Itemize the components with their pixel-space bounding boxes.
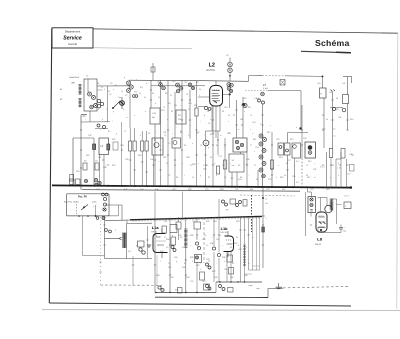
bottom circles x220	[219, 285, 222, 288]
vert x197	[196, 217, 198, 222]
svg-text:o: o	[160, 145, 161, 147]
svg-text:C60: C60	[174, 257, 177, 259]
cap above L1a right	[162, 226, 167, 233]
svg-text:q: q	[172, 235, 173, 237]
trimmer CV2	[92, 96, 96, 100]
page top rule	[52, 28, 398, 33]
svg-text:C11: C11	[172, 81, 175, 83]
svg-text:k: k	[102, 119, 103, 121]
svg-text:L2: L2	[209, 62, 215, 68]
circle below switch	[102, 217, 105, 220]
svg-text:C1: C1	[254, 165, 256, 167]
svg-text:b: b	[155, 103, 156, 105]
svg-text:Géné/Pick: Géné/Pick	[69, 77, 80, 79]
svg-text:Tous Pos. Radio: Tous Pos. Radio	[64, 201, 80, 203]
wire switch right	[105, 204, 122, 206]
tube L2 right lead	[223, 94, 230, 96]
box x196 top	[194, 222, 201, 229]
svg-text:H: H	[205, 141, 207, 145]
svg-text:n: n	[330, 177, 331, 179]
pickup circles	[139, 248, 142, 251]
vert x230	[229, 58, 231, 63]
box x235 inner	[235, 140, 238, 143]
volume pot	[195, 255, 202, 263]
mixer circle dark	[120, 101, 125, 106]
svg-text:C12: C12	[184, 82, 187, 84]
vert x263 lower	[262, 188, 264, 269]
svg-text:R26: R26	[138, 155, 141, 157]
svg-text:h: h	[192, 261, 193, 263]
svg-text:R8: R8	[212, 133, 214, 135]
svg-text:Service: Service	[63, 36, 82, 42]
wire below switch	[67, 215, 119, 217]
eye circle	[325, 205, 332, 212]
IF coil dark	[122, 232, 126, 234]
svg-text:2: 2	[199, 95, 200, 97]
svg-text:h: h	[216, 175, 217, 177]
vert x205	[205, 131, 207, 140]
svg-text:C73: C73	[310, 189, 313, 191]
svg-text:C39: C39	[125, 159, 128, 161]
box IF1	[152, 138, 163, 155]
bus junction dots	[69, 185, 71, 187]
vert x352 short	[350, 165, 355, 172]
svg-text:C2: C2	[110, 83, 112, 85]
svg-text:10n: 10n	[265, 203, 268, 205]
IF2 coil	[184, 228, 187, 230]
svg-text:0,1μF: 0,1μF	[263, 88, 269, 90]
wire y106 left of tube	[198, 106, 206, 108]
vert x157 low faint	[156, 255, 158, 285]
svg-text:R31: R31	[180, 219, 183, 221]
bottom box x230	[228, 288, 234, 293]
svg-text:h: h	[123, 109, 124, 111]
trimmer x245	[243, 103, 247, 107]
svg-text:C5: C5	[224, 177, 226, 179]
svg-text:R16: R16	[280, 177, 283, 179]
svg-text:C58: C58	[238, 249, 241, 251]
svg-text:C5: C5	[168, 143, 170, 145]
vert x121 dashed	[121, 122, 123, 186]
trimmer row mid1	[159, 83, 163, 87]
tick symbol x278	[278, 283, 280, 288]
svg-text:25μ: 25μ	[343, 231, 346, 233]
vert x219 gap	[218, 199, 220, 217]
svg-text:R46: R46	[244, 275, 247, 277]
svg-text:R0: R0	[180, 237, 182, 239]
wire y81 right segment	[203, 80, 249, 83]
circles x197	[195, 242, 198, 245]
res on box A	[93, 144, 96, 150]
eye wire top	[318, 197, 328, 199]
svg-text:R5: R5	[108, 131, 110, 133]
svg-text:R4: R4	[286, 163, 288, 165]
vert x155 down	[154, 124, 156, 186]
svg-text:R48: R48	[155, 189, 158, 191]
svg-text:C9: C9	[190, 165, 192, 167]
bus second line	[82, 190, 300, 192]
svg-text:a: a	[113, 89, 114, 91]
wire y282	[216, 281, 262, 283]
nested box ends	[249, 269, 260, 271]
vert x153 top stub	[152, 63, 154, 80]
svg-text:R35: R35	[190, 235, 193, 237]
svg-text:s: s	[190, 125, 191, 127]
trimmers on y76	[322, 76, 324, 78]
small box right of L3	[113, 142, 118, 150]
svg-text:R2: R2	[206, 165, 208, 167]
svg-text:C3: C3	[168, 175, 170, 177]
cap C3	[70, 175, 74, 182]
svg-text:C54: C54	[213, 221, 216, 223]
svg-text:1M: 1M	[240, 119, 243, 121]
bundle bottom hooks	[249, 285, 253, 287]
vert x332	[332, 91, 334, 149]
svg-text:R25: R25	[112, 165, 115, 167]
resistor pair c	[141, 141, 144, 151]
svg-text:Schéma: Schéma	[315, 38, 350, 48]
svg-text:R1: R1	[115, 85, 117, 87]
box M	[308, 197, 316, 213]
svg-text:R5: R5	[330, 165, 332, 167]
wire x142 down	[141, 151, 143, 186]
cap pair C15	[132, 95, 135, 98]
vert x153 to bus	[153, 155, 155, 186]
vert x182	[181, 80, 183, 186]
wire y90 right corner	[268, 89, 301, 91]
line under header	[93, 48, 192, 49]
svg-text:C7: C7	[163, 107, 165, 109]
svg-text:6,8: 6,8	[140, 87, 143, 89]
svg-text:e: e	[98, 109, 99, 111]
svg-text:a: a	[198, 247, 199, 249]
svg-text:C25: C25	[276, 139, 279, 141]
svg-text:x: x	[296, 127, 297, 129]
vert x242	[242, 97, 244, 138]
svg-text:e: e	[244, 111, 245, 113]
svg-text:C27: C27	[287, 160, 290, 162]
svg-text:C9: C9	[250, 115, 252, 117]
svg-text:d: d	[146, 83, 147, 85]
tube L1b leads	[226, 252, 228, 282]
vert x240 mid	[240, 152, 242, 154]
trimmer pair x177	[176, 83, 180, 87]
svg-text:C6: C6	[200, 145, 202, 147]
tube L2 inner box	[212, 89, 220, 91]
svg-text:C32: C32	[88, 135, 91, 137]
svg-text:R3: R3	[171, 111, 173, 113]
svg-text:R50: R50	[220, 189, 223, 191]
svg-text:R47: R47	[124, 189, 127, 191]
svg-text:R2: R2	[182, 247, 184, 249]
svg-text:C28: C28	[270, 169, 273, 171]
svg-text:A1: A1	[60, 88, 62, 91]
svg-text:R53: R53	[326, 189, 329, 191]
svg-text:R43: R43	[156, 275, 159, 277]
svg-text:47k: 47k	[174, 105, 177, 107]
vert x204	[203, 217, 205, 263]
svg-text:C 1k: C 1k	[337, 168, 341, 170]
switch vert x95	[95, 205, 97, 216]
wire y282 dots	[219, 281, 220, 282]
vert x168 to bus	[167, 115, 169, 186]
x263 marks	[262, 197, 264, 199]
vert x340	[335, 159, 337, 188]
svg-text:a: a	[278, 165, 279, 167]
svg-text:C21: C21	[163, 132, 166, 134]
switch contacts column	[102, 193, 105, 196]
bus end dot	[350, 186, 353, 189]
svg-text:C2: C2	[306, 165, 308, 167]
svg-text:220 V: 220 V	[344, 196, 350, 198]
svg-text:C36: C36	[120, 145, 123, 147]
box C33	[150, 108, 160, 124]
eye coil	[330, 198, 334, 200]
wire y122 left	[81, 121, 110, 123]
cap x179 bottom	[178, 288, 183, 294]
box A right edge	[93, 138, 95, 185]
vert x182 gap	[182, 192, 184, 218]
wire x130 mid down	[129, 151, 131, 186]
tube L1a	[153, 234, 168, 253]
vert x178	[178, 217, 180, 222]
svg-text:R6: R6	[248, 107, 250, 109]
cable bundle verticals	[240, 217, 242, 282]
wire top feed y80	[129, 79, 203, 82]
svg-text:C63: C63	[224, 269, 227, 271]
vert x107 gang	[107, 86, 109, 122]
svg-text:R23: R23	[86, 155, 89, 157]
svg-text:a: a	[165, 87, 166, 89]
box L3	[99, 138, 109, 155]
svg-text:b: b	[124, 77, 125, 79]
vert x82 below switch	[82, 216, 84, 256]
svg-text:e: e	[160, 177, 161, 179]
svg-text:C0: C0	[222, 165, 224, 167]
svg-text:5k: 5k	[170, 95, 172, 97]
wire coil to grid	[89, 111, 91, 122]
small caps y150 right	[329, 149, 333, 158]
svg-text:R12: R12	[267, 132, 270, 134]
svg-text:C61: C61	[168, 267, 171, 269]
svg-text:u: u	[220, 235, 221, 237]
vert x147	[147, 226, 149, 259]
svg-text:50: 50	[144, 97, 146, 99]
box right eye	[344, 202, 351, 209]
svg-text:C68: C68	[140, 189, 143, 191]
osc trimmer cluster x238	[227, 83, 231, 87]
switch bottom dots	[78, 215, 80, 217]
trimmer pair x190	[188, 83, 192, 87]
vert x218	[217, 131, 219, 155]
svg-text:u: u	[182, 163, 183, 165]
svg-text:C30: C30	[292, 176, 295, 178]
vert x347	[347, 77, 349, 95]
svg-text:R5: R5	[232, 263, 234, 265]
svg-text:R3: R3	[238, 165, 240, 167]
svg-text:C31: C31	[313, 169, 316, 171]
svg-text:C48: C48	[186, 157, 189, 159]
svg-text:R40: R40	[160, 251, 163, 253]
eye bottom wires	[310, 213, 312, 217]
svg-text:g: g	[113, 111, 114, 113]
svg-text:R41: R41	[182, 267, 185, 269]
svg-text:C41: C41	[338, 117, 341, 119]
svg-text:L8: L8	[317, 236, 322, 241]
dashed chassis left	[101, 284, 163, 286]
svg-text:R1: R1	[236, 237, 238, 239]
svg-text:C7: C7	[164, 237, 166, 239]
vert x175 to bus	[174, 148, 176, 186]
page left border	[49, 28, 52, 303]
cav parts	[261, 92, 265, 96]
cable hatch	[243, 244, 246, 246]
tube L1b	[224, 236, 234, 252]
trimmer CV1	[88, 92, 92, 96]
vert x160 to bus	[160, 138, 162, 186]
circles y126	[97, 124, 100, 127]
circles x160 bottom	[158, 286, 161, 289]
vert x294 low	[294, 158, 296, 187]
box M circles	[310, 198, 313, 201]
svg-text:Département: Département	[65, 30, 81, 34]
svg-text:1k: 1k	[326, 119, 328, 121]
vert x213	[212, 106, 214, 187]
svg-text:R2: R2	[152, 93, 154, 95]
circle H	[203, 140, 209, 146]
ground ticks below coil	[81, 114, 87, 116]
vert x155 gap	[154, 192, 156, 218]
box x235	[233, 138, 247, 152]
svg-text:C71: C71	[235, 189, 238, 191]
svg-text:R0: R0	[216, 145, 218, 147]
box x229 lower	[229, 154, 244, 172]
circles x173	[171, 246, 174, 249]
svg-text:R22: R22	[112, 139, 115, 141]
svg-text:50: 50	[336, 98, 338, 100]
svg-text:C1: C1	[86, 76, 88, 78]
svg-text:C47: C47	[150, 159, 153, 161]
svg-text:R6: R6	[176, 177, 178, 179]
svg-text:R7: R7	[208, 177, 210, 179]
svg-text:R37: R37	[234, 243, 237, 245]
wire y292	[155, 292, 216, 294]
box C35	[176, 222, 181, 229]
svg-text:C29: C29	[268, 179, 271, 181]
svg-text:R2: R2	[165, 93, 167, 95]
tube L2	[210, 86, 223, 107]
svg-text:h: h	[140, 135, 141, 137]
bottom long wire	[155, 296, 268, 298]
tick y107 right	[330, 107, 343, 109]
svg-text:d: d	[338, 163, 339, 165]
svg-text:a b: a b	[333, 129, 336, 131]
svg-text:C5: C5	[265, 199, 267, 201]
svg-text:C26: C26	[303, 138, 306, 140]
vert x104 below	[104, 216, 106, 259]
svg-text:R19: R19	[350, 119, 353, 121]
wire y86 mid	[151, 85, 205, 87]
trimmer stack L2 right	[228, 62, 233, 67]
svg-text:A2: A2	[60, 98, 62, 101]
svg-text:R7: R7	[180, 131, 182, 133]
svg-text:EM 85: EM 85	[315, 244, 322, 246]
svg-text:C67: C67	[96, 189, 99, 191]
svg-text:b: b	[214, 247, 215, 249]
svg-text:R34: R34	[166, 239, 169, 241]
wire y128 small	[95, 128, 108, 130]
box around IF coil	[127, 222, 153, 224]
trimmer cluster lm	[94, 179, 97, 182]
svg-text:R9: R9	[306, 175, 308, 177]
svg-text:R13: R13	[290, 139, 293, 141]
svg-text:g: g	[200, 175, 201, 177]
svg-text:C51: C51	[164, 221, 167, 223]
svg-text:R6: R6	[148, 133, 150, 135]
circles x207	[206, 263, 209, 266]
svg-text:C3: C3	[196, 133, 198, 135]
svg-text:C19: C19	[243, 98, 246, 100]
tube L2 left lead	[198, 96, 210, 98]
wire y132 right	[288, 131, 308, 133]
svg-text:C50: C50	[347, 174, 350, 176]
box x229 low	[227, 255, 233, 262]
svg-text:C8: C8	[166, 163, 168, 165]
svg-text:C6: C6	[186, 94, 188, 96]
bottom box x206	[204, 284, 210, 290]
resistor pair b	[129, 141, 132, 151]
svg-text:0,1: 0,1	[296, 161, 299, 163]
svg-text:R15: R15	[308, 161, 311, 163]
svg-text:C8 5p: C8 5p	[97, 90, 103, 92]
box x170 row	[170, 225, 177, 233]
cap C5	[95, 163, 99, 170]
svg-text:Pos. PU: Pos. PU	[78, 195, 87, 198]
svg-text:R18: R18	[335, 109, 338, 111]
box x320 r	[320, 88, 327, 98]
res x225	[223, 160, 226, 169]
gap cluster circles	[222, 200, 225, 203]
res on L3 box	[107, 144, 110, 150]
box x305 dark	[305, 142, 316, 158]
svg-text:AM: AM	[72, 81, 75, 84]
svg-text:R38: R38	[222, 257, 225, 259]
res x172 mid	[171, 237, 176, 245]
box above1	[83, 255, 105, 257]
coil L1 upper	[79, 84, 82, 86]
svg-text:Central: Central	[68, 42, 77, 46]
svg-text:C15: C15	[134, 92, 137, 94]
trimmer x344	[342, 108, 346, 112]
vert x190	[189, 90, 191, 139]
svg-text:R30: R30	[175, 290, 178, 292]
wire x130 osc down	[129, 93, 131, 129]
vert x100 low	[100, 217, 102, 285]
svg-text:R32: R32	[206, 221, 209, 223]
svg-text:osc: osc	[232, 165, 235, 167]
gap cluster boxes	[230, 199, 236, 204]
svg-text:C45: C45	[329, 92, 332, 94]
svg-text:C57: C57	[216, 239, 219, 241]
tuning gang box	[84, 79, 97, 111]
switch blade2	[81, 205, 88, 211]
svg-text:R39: R39	[190, 257, 193, 259]
svg-text:R44: R44	[186, 277, 189, 279]
switch circles mid	[105, 229, 108, 232]
svg-text:R1: R1	[174, 165, 176, 167]
svg-text:R 0,1: R 0,1	[320, 167, 325, 169]
svg-text:R14: R14	[279, 157, 282, 159]
